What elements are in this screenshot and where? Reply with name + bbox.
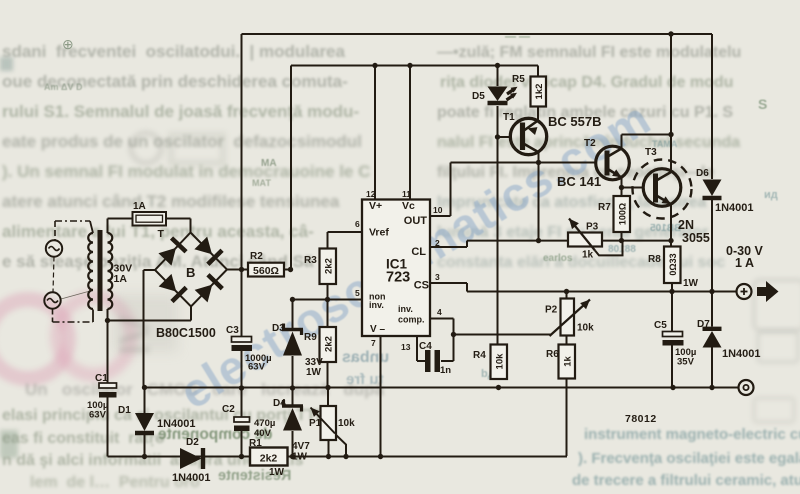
LED D5 light arrows [507,89,515,95]
svg-text:1N4001: 1N4001 [715,202,754,214]
wire - mains top dash-dot lead [55,220,90,222]
svg-text:1N4001: 1N4001 [157,418,196,430]
svg-text:P2: P2 [545,305,558,316]
svg-text:1k: 1k [582,250,594,261]
svg-text:B: B [186,265,195,280]
wire - CL line to P3 [467,240,568,242]
wire - left drop from top rail to bridge + node [241,34,243,270]
wire - raw +V top rail [242,33,713,35]
svg-text:inv.: inv. [398,304,413,314]
wire - secondary bottom drop through C1 [107,309,109,383]
resistor R7 100ohm [614,196,631,232]
svg-text:V+: V+ [369,200,382,212]
svg-text:D3: D3 [272,323,285,334]
wire - mains bottom dash-dot lead [53,321,94,323]
wire - CL jog [466,241,468,247]
svg-text:13: 13 [401,342,411,352]
svg-text:D7: D7 [697,319,710,330]
wire - C3 bottom lead to ground [241,349,243,388]
capacitor C1 100u 63V [99,383,117,388]
svg-text:12: 12 [366,189,376,199]
svg-text:0Ω33: 0Ω33 [668,253,678,275]
wire - C4 right lead [441,360,454,362]
svg-text:3: 3 [435,272,440,282]
diode D1 1N4001 [135,413,154,431]
svg-text:D4: D4 [273,398,286,409]
svg-text:560Ω: 560Ω [253,265,279,277]
svg-text:R8: R8 [648,254,661,265]
wire - bridge bottom lead [190,307,192,321]
wire - C5 bottom lead [671,346,673,388]
wire - bridge + output to R2 [227,269,248,271]
wire - collector vertical from top rail to T3 [670,34,672,173]
wire - pin 11 lead [409,66,411,201]
potentiometer P3 1k [568,233,602,247]
svg-text:R4: R4 [473,350,486,361]
svg-text:B80C1500: B80C1500 [156,326,216,340]
svg-text:40V: 40V [254,428,272,439]
wire - C5 top lead [671,292,673,332]
svg-text:63V: 63V [89,410,107,421]
wire - D5 cathode down to T1 base node and R4 [497,106,499,345]
output + terminal [737,284,752,299]
svg-text:BC 141: BC 141 [557,174,601,189]
resistor R9 2k2 [320,327,337,362]
wire - R6 bottom down to -bias line (crosses ground rail) [566,379,568,457]
wire - P1 bottom lead [328,440,330,457]
wire - pin 5 node line [293,299,363,301]
wire - pin 4 stub [430,318,454,320]
wire - AC source bottom stem [52,309,54,323]
potentiometer P2 10k [561,299,575,336]
wire - D4 top lead [292,388,294,405]
svg-text:R6: R6 [546,349,559,360]
svg-text:1A: 1A [114,273,128,285]
potentiometer P1 10k [321,406,337,440]
svg-text:10k: 10k [495,353,506,370]
svg-text:1k2: 1k2 [534,84,545,100]
svg-text:R9: R9 [304,332,317,343]
wire - D7 bottom to ground rail [711,348,713,388]
svg-text:OUT: OUT [404,215,428,227]
capacitor C3 1000u 63V [232,337,252,343]
svg-text:BC 557B: BC 557B [548,114,601,129]
wire - CS jog down [466,283,468,292]
svg-text:10k: 10k [338,418,355,429]
wire - OUT line to T2 base [451,162,597,164]
wire - P3 right to R8 top node [602,240,671,242]
svg-text:C2: C2 [222,404,235,415]
wire - T2 collector up [621,135,623,149]
resistor R4 10k [491,345,508,380]
wire - pin 13 drop [416,336,418,361]
diode D2 1N4001 [180,448,202,469]
wire - V+ rail (after R2) [291,65,538,67]
svg-text:C3: C3 [226,325,239,336]
transistor T2 BC141 [596,146,630,180]
wire - D1 top lead [144,388,146,414]
transformer T secondary winding [108,233,113,309]
svg-text:1A: 1A [133,201,146,212]
svg-text:1 A: 1 A [735,256,754,270]
bridge diode top-left [158,248,176,266]
svg-text:inv.: inv. [369,300,384,310]
wire - P1 wiper bend to -bias [335,434,346,457]
wire - R8 top lead [670,241,672,247]
svg-text:2: 2 [435,238,440,248]
resistor R2 560ohm [248,263,284,277]
diode D7 1N4001 [703,331,722,348]
AC source plug bottom [44,292,60,308]
wire - bridge minus left leg [144,269,156,271]
svg-text:1N4001: 1N4001 [172,472,211,484]
wire - CL pin 2 stub [430,246,467,248]
svg-text:D1: D1 [118,405,131,416]
resistor R1 2k2 1W [250,448,288,466]
svg-text:1n: 1n [440,365,451,376]
svg-text:CL: CL [411,246,426,258]
svg-text:63V: 63V [248,362,266,373]
svg-text:D2: D2 [186,437,199,448]
wire - C2 bottom lead to -bias [241,430,243,457]
svg-text:11: 11 [402,189,411,199]
wire - R3 top lead [327,232,329,249]
wire - D3 bottom lead [292,356,294,388]
wire - P2 to R6 [566,336,568,345]
svg-text:3055: 3055 [682,231,710,245]
wire - OUT jog up [450,163,452,217]
wire - P1 top lead [327,388,329,407]
fuse 1A [133,212,167,226]
svg-text:V –: V – [370,324,385,335]
svg-text:C1: C1 [95,373,108,384]
svg-text:4: 4 [437,307,442,317]
wire - P2 top lead [566,292,568,299]
svg-text:T: T [158,228,165,240]
svg-text:2k2: 2k2 [324,258,335,274]
wire - minus bias line left part [108,456,251,458]
watermark electroschematics.com [170,90,660,420]
svg-text:4V7: 4V7 [292,441,310,452]
wire - T1 collector down to CL line [538,152,540,241]
svg-text:R5: R5 [512,74,525,85]
svg-text:C4: C4 [419,341,432,352]
wire - D1 bottom lead [144,435,146,457]
capacitor C4 1n [425,350,431,372]
svg-text:10k: 10k [577,323,594,334]
wire - R7 bottom lead [621,232,623,241]
svg-text:Vc: Vc [402,200,415,212]
wire - T1 base lead [498,136,513,138]
wire - pin 6 stub [328,231,363,233]
wire - pin 7 drop to -bias line [380,336,382,456]
wire - output + line [467,291,737,293]
wire - AC source top stem [54,221,56,240]
wire - AC source link between plugs [53,257,54,293]
wire - R5 top lead [537,66,539,77]
wire - D6 to output + line [711,200,713,292]
transformer core [98,230,103,311]
wire - D3 top lead [292,300,294,329]
capacitor C2 470u 40V [234,417,250,422]
wire - D7 top lead [711,292,713,327]
svg-text:1k: 1k [563,356,574,367]
wire - pin 4 jog down [453,319,455,335]
wire - T2 collector to main collector vertical [622,134,672,136]
svg-text:723: 723 [386,270,410,286]
svg-text:1N4001: 1N4001 [722,348,761,360]
svg-text:10: 10 [433,205,443,215]
transistor T3 2N3055 [633,160,692,219]
wire - inv input line to P2 wiper [454,334,552,336]
wire - right drop from top rail to D6 [711,34,713,179]
wire - CS pin 3 stub [430,282,467,284]
wire - T2 emitter to T3 base [622,187,645,189]
wire - minus bias line right part [288,456,568,458]
wire - secondary top to fuse [107,219,109,234]
transistor T1 BC557B [510,118,546,154]
svg-text:1W: 1W [269,467,285,478]
svg-text:100Ω: 100Ω [618,203,628,225]
svg-text:78012: 78012 [625,413,657,425]
svg-text:2k2: 2k2 [324,336,335,352]
svg-text:C5: C5 [654,320,667,331]
wire - R3 bottom lead [327,284,329,300]
bridge diode bottom-right [195,285,213,303]
svg-text:T1: T1 [503,112,515,123]
svg-text:T3: T3 [645,147,657,158]
svg-text:Vref: Vref [369,227,389,239]
node dots [668,31,673,36]
AC source plug top [46,240,62,256]
resistor R8 0ohm33 1W [664,247,681,284]
wire - OUT pin 10 stub [430,215,451,217]
capacitor C5 100u 35V [663,332,683,337]
svg-text:5: 5 [355,288,360,298]
diode D6 1N4001 [703,180,722,197]
wire - V+ rail drop to R2 junction [290,66,292,270]
svg-text:R2: R2 [250,251,263,262]
svg-text:CS: CS [414,280,429,292]
wire - R2 right lead to V+ riser [281,269,291,271]
svg-text:R3: R3 [304,255,317,266]
wire - scan crease line to transformer [61,291,90,299]
wire - C3 top lead from + node [241,270,243,337]
wire - R9 top lead [327,300,329,328]
svg-text:D6: D6 [696,168,709,179]
output arrow [757,281,779,302]
svg-text:T2: T2 [584,138,596,149]
wire - R8 bottom lead to output line [671,283,673,292]
wire - T2 emitter down [621,177,623,188]
bridge diode top-right [194,237,212,255]
zener D4 4V7 1W [283,408,302,431]
svg-text:1W: 1W [683,278,699,289]
wire - R9 bottom lead [327,362,329,388]
wire - fuse to bridge top [166,218,191,220]
svg-text:2k2: 2k2 [260,453,278,465]
svg-text:35V: 35V [677,357,695,368]
svg-text:1W: 1W [306,367,322,378]
svg-text:R7: R7 [598,202,611,213]
wire - R5 bottom lead to T1 emitter [537,107,539,120]
resistor R6 1k [559,345,576,379]
transformer T primary winding [88,233,93,309]
resistor R5 1k2 [531,77,547,107]
wire - C4 right riser [453,335,455,362]
resistor R3 2k2 [320,249,337,285]
svg-text:comp.: comp. [398,315,425,325]
svg-text:7: 7 [371,338,376,348]
svg-text:R1: R1 [249,438,262,449]
op-amp regulator IC1 723 [362,200,430,337]
svg-text:P1: P1 [309,418,322,429]
svg-text:P3: P3 [586,222,599,233]
bridge rectifier B diamond [155,233,227,307]
wire - T2 emitter node to R7 top [621,188,623,197]
svg-text:D5: D5 [472,91,485,102]
zener D3 33V 1W [283,332,302,356]
wire - pin 12 lead [374,66,376,201]
svg-text:6: 6 [355,219,360,229]
wire - ground rail [145,387,740,389]
svg-text:2N: 2N [678,218,694,232]
wire - D5 branch from rail [497,66,499,87]
output 0 terminal [739,380,754,395]
LED D5 [488,87,508,102]
bridge diode bottom-left [159,274,177,292]
wire - C2 top lead from ground [241,388,243,417]
wire - pin 13 to C4 left [417,360,425,362]
wire - D4 bottom lead [292,431,294,457]
wire - T3 emitter down to sense node [670,204,672,241]
wire - secondary bottom line [108,320,192,322]
